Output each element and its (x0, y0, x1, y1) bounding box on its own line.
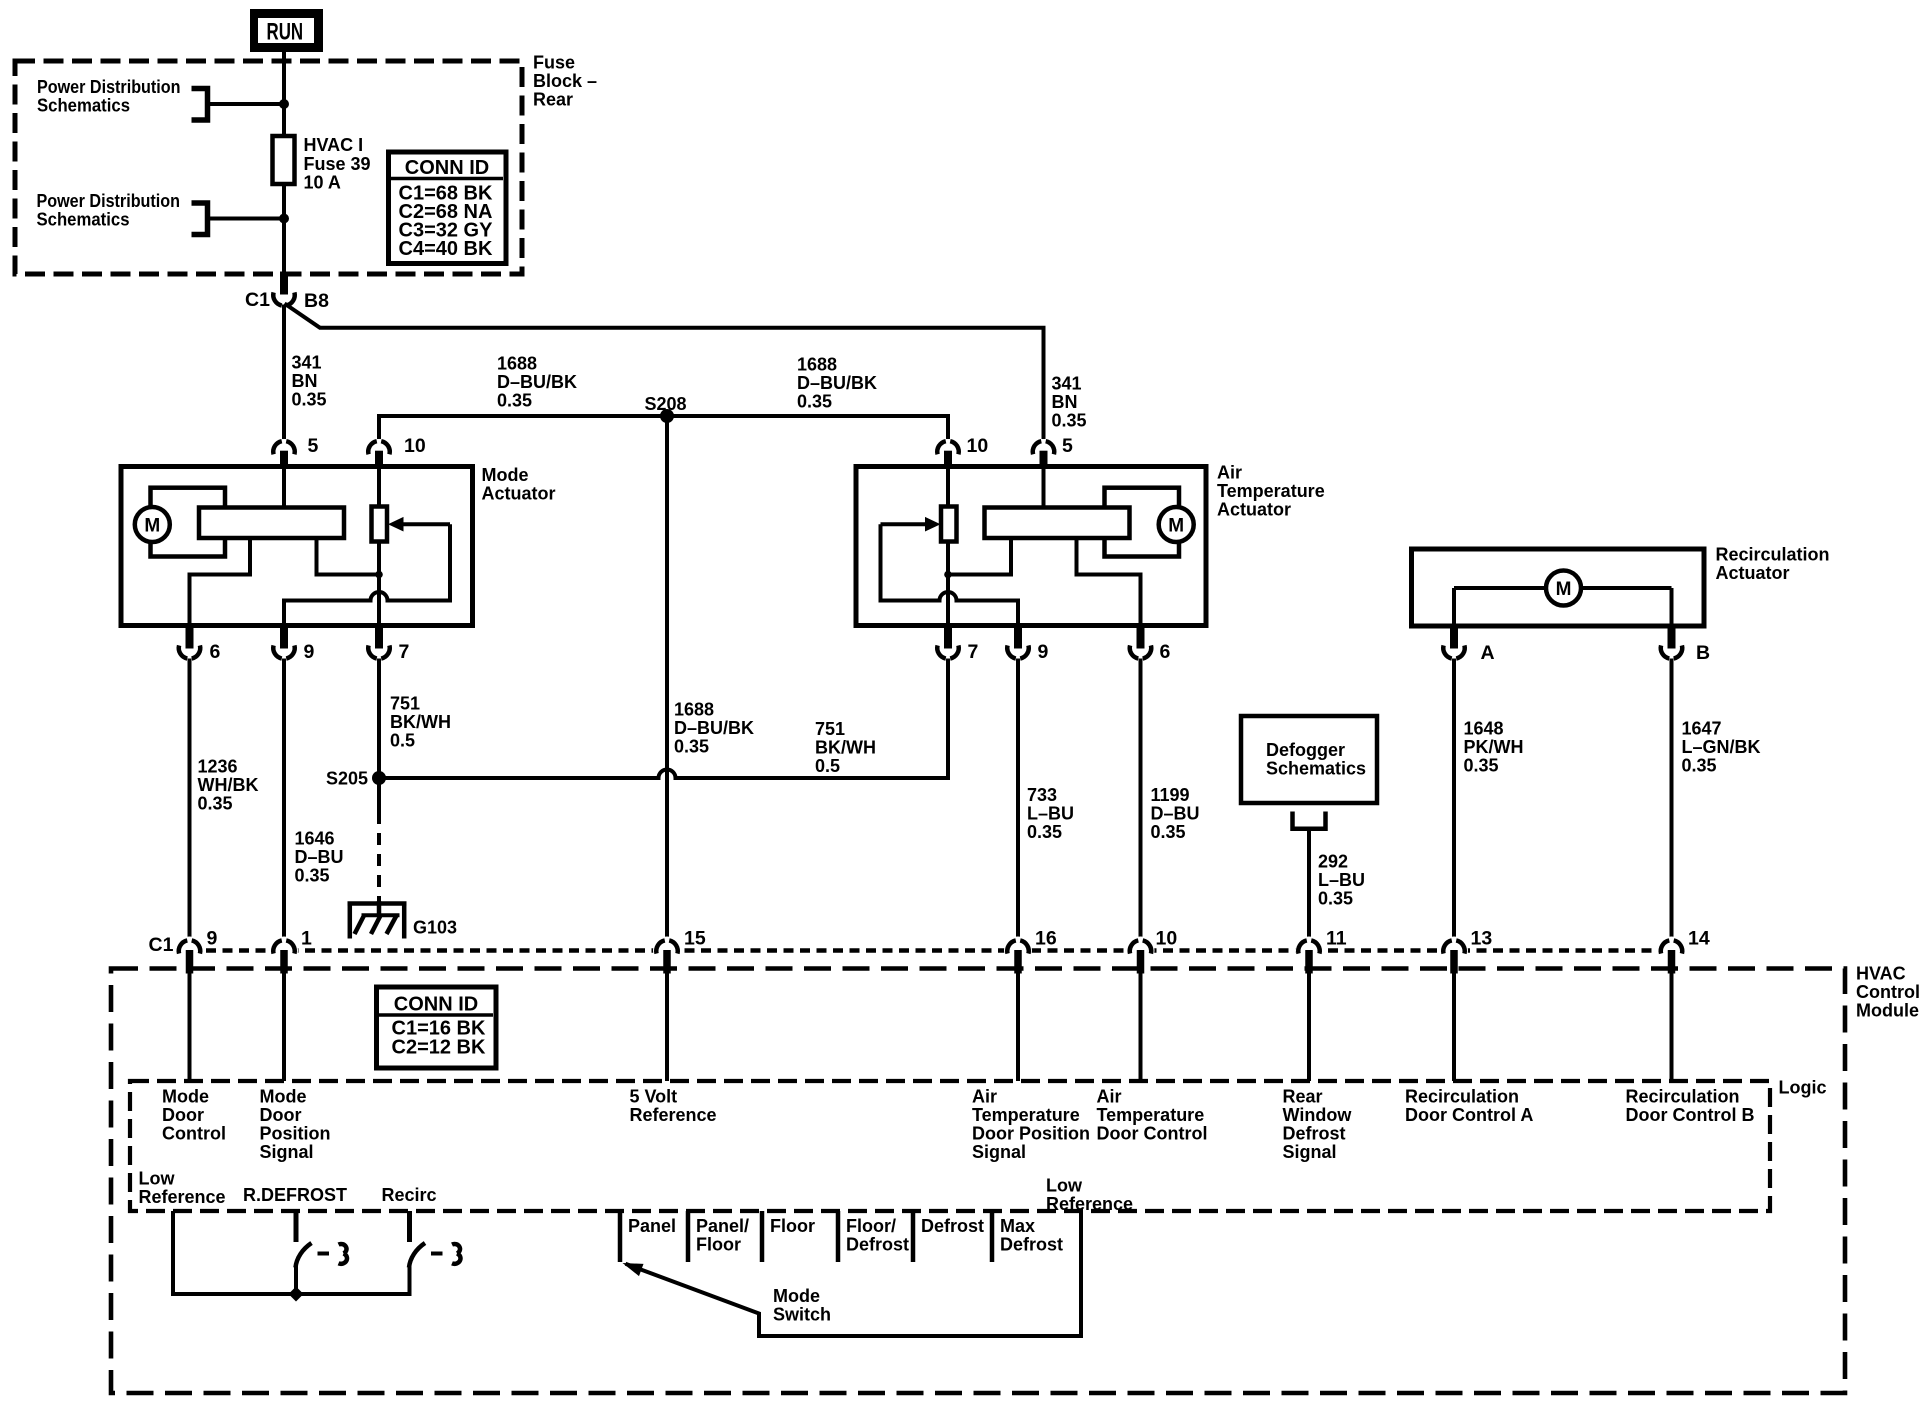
svg-text:0.5: 0.5 (390, 731, 415, 751)
motor housing (151, 488, 226, 557)
svg-text:D–BU/BK: D–BU/BK (674, 718, 754, 738)
svg-text:Door Control A: Door Control A (1405, 1105, 1533, 1125)
wire bracket 1 to fuse line (208, 102, 285, 106)
svg-text:Fuse 39: Fuse 39 (304, 154, 371, 174)
svg-text:Defrost: Defrost (1283, 1124, 1346, 1144)
svg-text:R.DEFROST: R.DEFROST (243, 1185, 347, 1205)
pin 6 stub and cup (186, 624, 194, 649)
svg-text:Defogger: Defogger (1266, 740, 1345, 760)
module pin 1 (273, 928, 312, 974)
vertical wire pin 10 to pin 7 (946, 467, 950, 626)
svg-text:Reference: Reference (1046, 1194, 1133, 1214)
wire 341 BN (left, C1 to mode actuator pin 5) (282, 305, 286, 440)
svg-text:0.35: 0.35 (295, 866, 330, 886)
svg-text:6: 6 (210, 641, 221, 663)
svg-text:C1: C1 (245, 289, 270, 311)
motor M circle (1159, 507, 1194, 542)
svg-text:341: 341 (292, 353, 322, 373)
svg-text:Reference: Reference (139, 1187, 226, 1207)
svg-text:Module: Module (1856, 1001, 1919, 1021)
svg-text:Recirc: Recirc (382, 1185, 437, 1205)
module pin 16 (1007, 928, 1057, 974)
svg-text:Actuator: Actuator (1716, 563, 1790, 583)
logic label air temperature door position signal (972, 1087, 1090, 1163)
svg-text:M: M (1168, 516, 1184, 537)
svg-text:CONN ID: CONN ID (394, 994, 478, 1016)
module pin 14 (1661, 928, 1710, 974)
svg-text:0.35: 0.35 (292, 390, 327, 410)
svg-text:Signal: Signal (260, 1142, 314, 1162)
svg-text:Actuator: Actuator (1217, 500, 1291, 520)
svg-text:Low: Low (1046, 1176, 1083, 1196)
svg-text:0.35: 0.35 (674, 737, 709, 757)
feedback wire with hop (284, 524, 450, 625)
power distribution schematics label 1 (37, 77, 181, 116)
wire 1236 WH/BK mode pin6 to module pin 9 (188, 659, 192, 940)
pin 9 stub and cup (1014, 624, 1022, 649)
wire label 341 BN 0.35 (left) (292, 353, 327, 410)
svg-text:Door: Door (162, 1105, 204, 1125)
svg-text:9: 9 (304, 641, 315, 663)
defogger bracket (1293, 812, 1326, 829)
svg-text:0.35: 0.35 (797, 392, 832, 412)
svg-text:L–GN/BK: L–GN/BK (1682, 737, 1761, 757)
low reference wire (left) (173, 1211, 410, 1294)
pin 5 stub and dome (1040, 451, 1048, 468)
svg-text:HVAC I: HVAC I (304, 135, 364, 155)
wire module pin 16 into logic (1016, 974, 1020, 1082)
svg-text:Mode: Mode (260, 1087, 307, 1107)
connector C1 dotted line (206, 948, 1658, 953)
motor wire (1454, 586, 1672, 590)
svg-text:0.35: 0.35 (1027, 822, 1062, 842)
svg-text:Temperature: Temperature (972, 1105, 1080, 1125)
svg-text:6: 6 (1160, 641, 1171, 663)
wire pin 5 to track (282, 467, 286, 509)
svg-text:0.35: 0.35 (1052, 411, 1087, 431)
wire module pin 14 into logic (1670, 974, 1674, 1082)
wire label 1688 D-BU/BK 0.35 (left) (497, 354, 577, 411)
svg-text:Mode: Mode (773, 1286, 820, 1306)
connector C1 B8 (cup symbol) (245, 272, 329, 313)
logic label recirculation door control A (1405, 1087, 1533, 1126)
svg-text:0.35: 0.35 (497, 391, 532, 411)
svg-text:C4=40 BK: C4=40 BK (399, 238, 493, 260)
svg-text:11: 11 (1326, 928, 1347, 950)
svg-text:Door Control: Door Control (1097, 1124, 1208, 1144)
svg-text:1688: 1688 (497, 354, 537, 374)
svg-text:Defrost: Defrost (921, 1216, 984, 1236)
mode switch arrow head (623, 1263, 644, 1276)
svg-text:Air: Air (972, 1087, 997, 1107)
pin 7 stub and cup (944, 624, 952, 649)
svg-text:Door Position: Door Position (972, 1124, 1090, 1144)
wire B8 diagonal branch (285, 304, 321, 328)
recirculation actuator box (1412, 549, 1705, 626)
ignition switch RUN box (250, 9, 323, 52)
wire 733 L-BU air pin9 to module pin 16 (1016, 659, 1020, 940)
svg-text:WH/BK: WH/BK (198, 775, 259, 795)
white underlays for module pin domes (176, 937, 1686, 965)
logic label rear window defrost signal (1283, 1087, 1353, 1163)
feedback wire with hop (881, 524, 1019, 625)
pin 9 stub and cup (280, 624, 288, 649)
svg-text:Air: Air (1097, 1087, 1122, 1107)
svg-text:Power Distribution: Power Distribution (37, 77, 181, 97)
switch R.DEFROST (296, 1211, 348, 1294)
track to pin 6 wire (190, 538, 251, 626)
svg-text:PK/WH: PK/WH (1464, 737, 1524, 757)
potentiometer track (985, 508, 1130, 539)
svg-text:L–BU: L–BU (1318, 870, 1365, 890)
wiper element (941, 507, 957, 542)
svg-text:0.35: 0.35 (1682, 756, 1717, 776)
node S205 (372, 771, 386, 785)
wire label 1688 D-BU/BK 0.35 (S208 down) (674, 700, 754, 757)
svg-text:Air: Air (1217, 463, 1242, 483)
track to junction wire (948, 538, 1011, 575)
svg-text:9: 9 (1038, 641, 1049, 663)
svg-text:Reference: Reference (630, 1105, 717, 1125)
junction dot wiper (375, 571, 383, 579)
svg-text:Low: Low (139, 1169, 176, 1189)
mode switch label (773, 1286, 831, 1325)
svg-text:BN: BN (1052, 392, 1078, 412)
svg-text:Recirculation: Recirculation (1626, 1087, 1740, 1107)
wire module pin 13 into logic (1452, 974, 1456, 1082)
svg-text:Power Distribution: Power Distribution (37, 191, 181, 211)
svg-text:M: M (1556, 579, 1572, 600)
wire 751 BK/WH mode pin7 down to S205 (377, 659, 381, 779)
svg-text:10 A: 10 A (304, 173, 341, 193)
svg-text:10: 10 (967, 435, 989, 457)
wiper arrow (388, 517, 404, 532)
svg-text:1648: 1648 (1464, 719, 1504, 739)
module pin 13 (1443, 928, 1492, 974)
logic label mode door position signal (260, 1087, 331, 1163)
wire module pin 9 into logic (188, 974, 192, 1082)
svg-text:D–BU/BK: D–BU/BK (797, 373, 877, 393)
junction dot 2 (279, 214, 289, 224)
switch Recirc (409, 1211, 461, 1268)
module pin 11 (1298, 928, 1347, 974)
wire bracket 2 to fuse line (208, 217, 285, 221)
svg-text:B: B (1696, 642, 1710, 664)
module pin 15 (656, 928, 706, 974)
wire module pin 11 into logic (1307, 974, 1311, 1082)
svg-text:1688: 1688 (674, 700, 714, 720)
junction dot 1 (279, 99, 289, 109)
module pin 9 (179, 928, 218, 974)
svg-text:Control: Control (1856, 982, 1920, 1002)
svg-text:Rear: Rear (1283, 1087, 1323, 1107)
svg-text:BN: BN (292, 371, 318, 391)
wire S205 dashed branch to ground (377, 778, 381, 812)
pin B inner wire (1670, 588, 1674, 626)
svg-text:CONN ID: CONN ID (405, 157, 489, 179)
mode actuator box (121, 467, 473, 626)
svg-text:Recirculation: Recirculation (1405, 1087, 1519, 1107)
svg-text:0.35: 0.35 (1318, 889, 1353, 909)
power distribution bracket 1 (192, 89, 208, 121)
wire module pin 10 into logic (1139, 974, 1143, 1082)
svg-text:Temperature: Temperature (1097, 1105, 1205, 1125)
svg-text:Schematics: Schematics (37, 210, 130, 230)
fuse HVAC I Fuse 39 10 A (273, 135, 371, 193)
svg-text:B8: B8 (304, 290, 329, 312)
svg-text:Panel/: Panel/ (696, 1216, 749, 1236)
svg-text:1646: 1646 (295, 829, 335, 849)
svg-text:D–BU/BK: D–BU/BK (497, 372, 577, 392)
wiper element (372, 507, 388, 542)
low reference wire (right) to mode switch common (626, 1211, 1082, 1336)
svg-text:Rear: Rear (533, 90, 573, 110)
svg-text:Temperature: Temperature (1217, 481, 1325, 501)
mode actuator U1 (121, 435, 556, 663)
svg-text:G103: G103 (413, 918, 457, 938)
svg-text:1: 1 (301, 928, 312, 950)
svg-text:Switch: Switch (773, 1305, 831, 1325)
CONN ID table (module) (377, 987, 497, 1068)
svg-text:7: 7 (968, 641, 979, 663)
ground G103 (348, 901, 458, 939)
wire 1688 D-BU/BK mode pin 10 up to S208 (379, 416, 667, 439)
pin 5 stub and dome (280, 451, 288, 468)
svg-text:Block –: Block – (533, 71, 597, 91)
node S208 (660, 409, 674, 423)
mode switch position dividers (620, 1211, 992, 1262)
svg-text:Floor/: Floor/ (846, 1216, 896, 1236)
svg-text:1647: 1647 (1682, 719, 1722, 739)
svg-text:Schematics: Schematics (37, 96, 130, 116)
svg-text:Max: Max (1000, 1216, 1035, 1236)
svg-text:Floor: Floor (696, 1235, 741, 1255)
wire pin 5 to track (1042, 467, 1046, 509)
svg-text:733: 733 (1027, 785, 1057, 805)
potentiometer track (199, 508, 344, 539)
wiper arrow (925, 517, 941, 532)
svg-text:Door Control B: Door Control B (1626, 1105, 1755, 1125)
svg-text:Door: Door (260, 1105, 302, 1125)
svg-text:D–BU: D–BU (1151, 804, 1200, 824)
svg-text:Logic: Logic (1779, 1078, 1827, 1098)
air temp actuator box (856, 467, 1206, 626)
pin 10 stub and dome (375, 451, 383, 468)
logic label recirculation door control B (1626, 1087, 1755, 1126)
pin A stub and cup (1450, 625, 1458, 649)
logic label 5 volt reference (630, 1087, 717, 1126)
svg-text:292: 292 (1318, 852, 1348, 872)
low reference label (right) (1046, 1176, 1133, 1215)
air temperature actuator U2 (856, 435, 1325, 663)
svg-text:5 Volt: 5 Volt (630, 1087, 678, 1107)
track to wiper junction wire (317, 538, 380, 575)
svg-text:L–BU: L–BU (1027, 804, 1074, 824)
svg-text:5: 5 (308, 435, 319, 457)
CONN ID table (fuse block) (389, 152, 507, 264)
motor M circle (1546, 571, 1581, 606)
svg-text:0.35: 0.35 (1464, 756, 1499, 776)
svg-text:Window: Window (1283, 1105, 1353, 1125)
svg-text:BK/WH: BK/WH (815, 738, 876, 758)
svg-text:13: 13 (1471, 928, 1493, 950)
svg-text:Signal: Signal (1283, 1142, 1337, 1162)
wire 292 L-BU defogger to module pin 11 (1307, 829, 1311, 940)
module pin 10 (1130, 928, 1178, 974)
svg-text:5: 5 (1062, 435, 1073, 457)
svg-text:C2=12 BK: C2=12 BK (392, 1037, 486, 1059)
svg-text:Position: Position (260, 1124, 331, 1144)
svg-text:Defrost: Defrost (1000, 1235, 1063, 1255)
svg-text:Schematics: Schematics (1266, 759, 1366, 779)
svg-text:1688: 1688 (797, 355, 837, 375)
wire 1646 D-BU mode pin9 to module pin 1 (282, 659, 286, 940)
wire top horizontal to air temp actuator pin 5 (319, 328, 1044, 439)
pin A inner wire (1452, 588, 1456, 626)
svg-text:BK/WH: BK/WH (390, 712, 451, 732)
svg-text:Recirculation: Recirculation (1716, 545, 1830, 565)
recirculation actuator U3 (1412, 545, 1830, 665)
defogger schematics box (1241, 716, 1377, 829)
junction dot low ref / r.defrost (289, 1287, 304, 1302)
svg-text:1236: 1236 (198, 757, 238, 777)
svg-text:RUN: RUN (267, 19, 304, 46)
logic label air temperature door control (1097, 1087, 1208, 1144)
pin 10 stub and dome (944, 451, 952, 468)
wire S208 down to module pin 15 (665, 416, 669, 940)
svg-text:1199: 1199 (1151, 785, 1190, 805)
svg-text:Floor: Floor (770, 1216, 815, 1236)
wire 1648 PK/WH recirc A to module pin 13 (1452, 659, 1456, 940)
svg-text:Mode: Mode (162, 1087, 209, 1107)
wire from RUN through fuse to connector C1 (282, 52, 286, 274)
junction dot wiper (944, 571, 952, 579)
svg-text:0.35: 0.35 (198, 794, 233, 814)
fuse block rear dashed box (15, 61, 522, 274)
wire label 341 BN 0.35 (right) (1052, 374, 1087, 431)
wire label 1688 D-BU/BK 0.35 (right) (797, 355, 877, 412)
svg-text:751: 751 (390, 694, 420, 714)
svg-text:0.5: 0.5 (815, 756, 840, 776)
pin 7 stub and cup (375, 624, 383, 649)
HVAC control module dashed box (111, 969, 1845, 1394)
pin 6 stub and cup (1137, 624, 1145, 649)
svg-text:M: M (144, 516, 160, 537)
svg-text:Defrost: Defrost (846, 1235, 909, 1255)
mode switch position labels (628, 1216, 1063, 1255)
svg-text:0.35: 0.35 (1151, 822, 1186, 842)
wire S208 to air temp actuator pin 10 (667, 416, 948, 439)
wire module pin 15 into logic (665, 974, 669, 1082)
svg-text:16: 16 (1035, 928, 1057, 950)
svg-text:S205: S205 (326, 769, 368, 789)
svg-text:Mode: Mode (482, 465, 529, 485)
power distribution bracket 2 (192, 203, 208, 235)
svg-text:Signal: Signal (972, 1142, 1026, 1162)
track to pin 6 wire (1077, 538, 1141, 626)
svg-text:Actuator: Actuator (482, 484, 556, 504)
pin B stub and cup (1668, 625, 1676, 649)
vertical wire pin 10 to pin 7 (377, 467, 381, 626)
wire module pin 1 into logic (282, 974, 286, 1082)
svg-text:10: 10 (1156, 928, 1178, 950)
motor M circle (135, 507, 170, 542)
svg-text:D–BU: D–BU (295, 847, 344, 867)
svg-text:Fuse: Fuse (533, 53, 575, 73)
svg-text:S208: S208 (645, 394, 687, 414)
low reference label (left) (139, 1169, 226, 1208)
motor housing (1105, 488, 1180, 557)
svg-text:7: 7 (399, 641, 410, 663)
svg-text:341: 341 (1052, 374, 1082, 394)
svg-text:14: 14 (1688, 928, 1710, 950)
svg-text:9: 9 (207, 928, 218, 950)
svg-text:C1: C1 (149, 934, 174, 956)
wire 751 BK/WH horizontal S205 to air temp pin 7 (hop over 1688) (379, 659, 948, 779)
logic dashed box (130, 1081, 1770, 1211)
svg-text:HVAC: HVAC (1856, 964, 1906, 984)
svg-text:10: 10 (404, 435, 426, 457)
svg-text:15: 15 (684, 928, 706, 950)
svg-text:Panel: Panel (628, 1216, 676, 1236)
wire 1647 L-GN/BK recirc B to module pin 14 (1670, 659, 1674, 940)
HVAC control module label (1856, 964, 1920, 1021)
svg-text:A: A (1481, 642, 1495, 664)
fuse block rear label (533, 53, 597, 110)
svg-text:751: 751 (815, 719, 845, 739)
power distribution schematics label 2 (37, 191, 181, 230)
svg-text:Control: Control (162, 1124, 226, 1144)
wire 1199 D-BU air pin6 to module pin 10 (1139, 659, 1143, 940)
logic label mode door control (162, 1087, 226, 1144)
